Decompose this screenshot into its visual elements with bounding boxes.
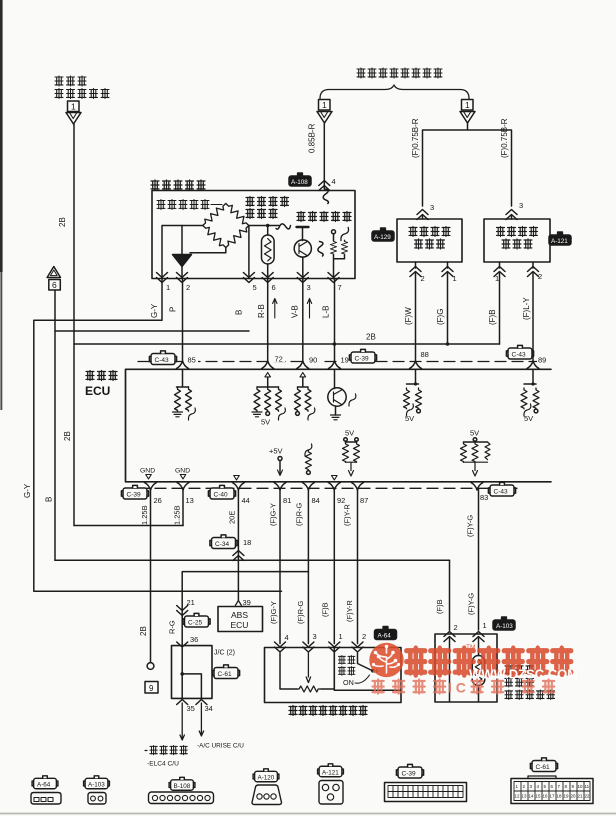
ECU pin 88 — [419, 349, 432, 358]
TPS box — [265, 648, 402, 703]
connector C-43 right-top — [506, 345, 533, 359]
ECU internal: pin89 pair 5V — [524, 369, 536, 384]
svg-text:2B: 2B — [139, 626, 148, 636]
bottom connector A-103 face — [88, 793, 106, 805]
chevron 18 — [233, 551, 244, 561]
svg-text:1: 1 — [339, 632, 343, 641]
svg-text:5V: 5V — [261, 418, 270, 427]
connector C-43 left — [149, 351, 176, 365]
bottom connector B-108 face — [149, 792, 214, 804]
svg-text:5: 5 — [544, 784, 547, 789]
label airflow sensor (box title) — [151, 180, 205, 190]
amp output to pin 2 — [181, 267, 183, 279]
svg-text:(F)R-G: (F)R-G — [296, 601, 305, 624]
svg-text:L-B: L-B — [322, 306, 331, 318]
bridge right wire to pin 5 — [248, 226, 250, 279]
bottom connector C-61 label — [530, 758, 557, 772]
svg-text:8: 8 — [565, 784, 568, 789]
relay terminal box 1 (mid-left) — [319, 100, 331, 111]
ECU connector dashed line top — [138, 361, 549, 363]
svg-text:(F)B: (F)B — [435, 599, 444, 614]
svg-text:I C: I C — [448, 680, 466, 696]
brace — [320, 85, 469, 99]
svg-text:A-103: A-103 — [496, 623, 513, 630]
svg-text:2: 2 — [186, 283, 190, 292]
label 节气门位置传感器 — [289, 706, 367, 716]
svg-text:2B: 2B — [58, 217, 67, 227]
svg-text:B: B — [235, 310, 244, 315]
ECU internal: pin19 transistor — [334, 369, 336, 388]
label 发动机 ECU — [86, 371, 117, 381]
wire (F)Y-G pin83 to coolant pin1 — [478, 490, 480, 631]
svg-text:4: 4 — [285, 633, 289, 642]
ECU internal: pin72 ladder 5V — [265, 373, 271, 377]
hot-wire transistor circle — [294, 240, 311, 257]
connector C-39 top — [349, 349, 376, 363]
svg-text:2B: 2B — [366, 333, 376, 342]
svg-text:(F)Y-R: (F)Y-R — [343, 504, 352, 526]
coolant sensor internals — [450, 638, 479, 702]
svg-text:1: 1 — [495, 274, 499, 283]
svg-text:3: 3 — [307, 283, 311, 292]
right pair resistor 1 with terminal — [332, 230, 336, 234]
svg-text:22: 22 — [585, 794, 591, 799]
svg-text:15: 15 — [536, 794, 542, 799]
junction dots on 2B bus — [333, 342, 337, 346]
svg-text:GND: GND — [175, 468, 190, 475]
ECU pin 90 — [307, 354, 320, 363]
crank position sensor box — [397, 219, 462, 262]
relay terminal box 1 (mid-right) — [462, 100, 474, 111]
svg-text:5: 5 — [253, 283, 257, 292]
svg-text:6: 6 — [272, 283, 276, 292]
svg-text:(F)B: (F)B — [488, 309, 497, 325]
svg-text:ECU: ECU — [231, 620, 249, 630]
ECU pin 85 — [185, 354, 198, 363]
svg-text:13: 13 — [186, 496, 194, 505]
ECU internal: pin85 pull resistors — [177, 369, 189, 387]
svg-text:GND: GND — [140, 468, 155, 475]
label engine control relay (top-left) — [55, 76, 109, 99]
svg-text:5V: 5V — [345, 429, 354, 438]
bottom connector A-121 face — [319, 781, 343, 805]
svg-text:5V: 5V — [405, 414, 414, 423]
svg-text:92: 92 — [337, 496, 345, 505]
svg-text:1.25B: 1.25B — [140, 505, 149, 525]
svg-text:2: 2 — [523, 784, 526, 789]
svg-text:84: 84 — [312, 496, 320, 505]
ECU pin 44 — [232, 483, 244, 491]
idle switch lever — [358, 653, 372, 670]
TPS pin 2 — [352, 642, 363, 652]
svg-text:C-39: C-39 — [355, 355, 369, 362]
svg-text:A-120: A-120 — [258, 774, 275, 781]
idle switch box — [334, 648, 401, 691]
svg-text:1.25B: 1.25B — [173, 505, 182, 525]
wire L-B: airflow pin7 to ECU 19 — [334, 279, 336, 362]
svg-text:(F)0.75B-R: (F)0.75B-R — [411, 118, 420, 158]
ECU pin 84 — [302, 483, 314, 491]
terminal box 6 — [49, 280, 61, 291]
svg-text:10: 10 — [578, 784, 584, 789]
svg-text:(F)Y-G: (F)Y-G — [466, 515, 475, 537]
ECU pin 19 — [339, 354, 351, 363]
label crank angle sensor — [497, 227, 538, 250]
ECU internal: pin88 pair 5V — [407, 369, 419, 384]
svg-text:G-Y: G-Y — [23, 483, 32, 498]
svg-text:A-103: A-103 — [88, 781, 105, 788]
svg-text:5V: 5V — [524, 414, 533, 423]
J/C junction box — [172, 646, 213, 699]
svg-text:R-B: R-B — [257, 304, 266, 318]
label intake air temp sensor — [246, 197, 289, 219]
wire 35 to ELC4 — [180, 703, 184, 740]
wire 20E pin44 to ABS ECU — [237, 490, 239, 602]
right pair resistor 2 with hook — [341, 227, 349, 240]
bottom connector C-61 face — [528, 776, 556, 779]
connector A-121 — [549, 232, 571, 245]
svg-text:(F)G-Y: (F)G-Y — [269, 503, 278, 526]
bottom connector C-39 face — [385, 783, 467, 802]
J/C pin 35 — [177, 700, 188, 705]
wire B bus to coolant pin2 — [449, 560, 451, 630]
thermistor (intake air temp) — [262, 235, 275, 264]
ECU pin 81 — [274, 483, 286, 491]
wire 2B horizontal bus to pin19 and crank ground — [74, 343, 500, 345]
TPS pin 4 — [275, 642, 286, 652]
scan edge bottom — [0, 813, 616, 815]
svg-text:V-B: V-B — [291, 305, 300, 318]
ABS ECU box — [218, 607, 263, 632]
svg-text:P: P — [169, 307, 178, 312]
svg-text:B: B — [45, 497, 54, 502]
svg-text:89: 89 — [538, 356, 546, 365]
ECU pin 13 — [177, 483, 189, 491]
svg-text:39: 39 — [243, 598, 251, 607]
svg-text:(F)R-G: (F)R-G — [295, 503, 304, 526]
svg-text:88: 88 — [421, 350, 429, 359]
svg-text:81: 81 — [283, 496, 291, 505]
bottom connector A-64 label — [32, 776, 58, 789]
wire B branch to airflow pin5 — [55, 330, 249, 332]
svg-text:ABS: ABS — [231, 610, 248, 620]
TPS potentiometer — [280, 653, 297, 689]
svg-text:C-61: C-61 — [218, 671, 232, 678]
svg-text:0.85B-R: 0.85B-R — [308, 123, 317, 153]
bridge left wire to pin 1 — [162, 226, 203, 279]
wire 0.85B-R — [323, 123, 325, 189]
relay connector triangle (mid-left) — [317, 112, 332, 124]
thermistor wire top — [267, 226, 269, 236]
svg-text:3: 3 — [313, 632, 317, 641]
wire R-G branch to J/C — [182, 572, 308, 646]
svg-text:5V: 5V — [470, 429, 479, 438]
svg-text:44: 44 — [242, 496, 250, 505]
ECU internal: pin90 pair — [300, 373, 306, 377]
connector A-64 — [375, 627, 397, 640]
svg-text:C-40: C-40 — [214, 491, 228, 498]
J/C internal bus — [182, 646, 201, 699]
svg-text:A-64: A-64 — [37, 781, 51, 788]
svg-text:9: 9 — [149, 684, 154, 693]
TPS pin 3 — [303, 642, 314, 652]
ECU connector dashed line bottom — [138, 487, 517, 489]
relay connector triangle (left) — [66, 113, 81, 125]
ECU internal: pin84 resistor — [305, 444, 312, 456]
svg-text:WWW.DZSC.COM: WWW.DZSC.COM — [469, 667, 578, 682]
ECU pin 72 — [272, 353, 285, 362]
svg-text:34: 34 — [205, 704, 213, 713]
label 怠速开关 — [338, 656, 355, 676]
coolant thermistor — [472, 656, 485, 686]
airflow box pin chevrons — [157, 273, 168, 283]
svg-text:18: 18 — [557, 794, 563, 799]
svg-text:1: 1 — [322, 100, 327, 110]
svg-text:(F)B: (F)B — [321, 602, 330, 617]
svg-text:J/C (2): J/C (2) — [214, 650, 235, 657]
svg-text:19: 19 — [341, 356, 349, 365]
chevron pin 3 crank A — [417, 210, 428, 220]
svg-text:C-61: C-61 — [536, 764, 550, 771]
wire 1.25B pin26 to terminal 9 — [150, 490, 152, 663]
svg-text:(F)Y-R: (F)Y-R — [345, 600, 354, 622]
bottom connector A-64 face — [31, 793, 61, 805]
wire (F)L-Y crank B to ECU 89 — [532, 262, 534, 362]
wire break squiggle into airflow box — [323, 189, 328, 204]
svg-text:19: 19 — [564, 794, 570, 799]
svg-text:3: 3 — [430, 203, 434, 212]
wire V-B: airflow pin3 to ECU 90 — [302, 279, 304, 362]
svg-text:11: 11 — [585, 784, 590, 789]
label engine control relay (top-middle) — [357, 68, 442, 78]
svg-text:A-121: A-121 — [551, 238, 568, 245]
svg-text:6: 6 — [52, 280, 57, 290]
svg-text:(F)L-Y: (F)L-Y — [522, 297, 531, 320]
wire (F)B crank B to 2B bus — [499, 262, 501, 344]
wire (F)G-Y pin81 to TPS pin4 — [279, 490, 281, 644]
bottom connector C-39 label — [396, 764, 423, 778]
svg-text:3: 3 — [519, 201, 523, 210]
svg-text:12: 12 — [515, 794, 521, 799]
svg-text:14: 14 — [529, 794, 535, 799]
wire B from box 6 down — [54, 290, 56, 560]
terminal circle — [147, 663, 154, 670]
svg-text:(F)Y-G: (F)Y-G — [467, 593, 476, 615]
watermark logo circle — [369, 643, 403, 677]
bridge bottom to amp — [190, 248, 226, 253]
svg-text:7: 7 — [558, 784, 561, 789]
ECU pin 89 — [537, 354, 550, 363]
svg-text:C-25: C-25 — [188, 619, 202, 626]
svg-text:A-64: A-64 — [378, 632, 392, 639]
svg-text:TM: TM — [466, 644, 475, 651]
bottom connector B-108 label — [169, 777, 195, 790]
ECU box — [126, 369, 552, 482]
direction arrow R-B — [273, 299, 277, 319]
svg-text:83: 83 — [480, 493, 488, 502]
svg-text:16: 16 — [543, 794, 549, 799]
coolant pin 1 — [473, 632, 484, 642]
ECU pin 26 — [145, 483, 157, 491]
crank B pin 1 chevron — [494, 267, 505, 277]
connector C-39 bottom-left — [121, 485, 148, 499]
TPS pin 1 — [329, 642, 340, 652]
svg-text:(F)G-Y: (F)G-Y — [269, 601, 278, 624]
svg-text:1: 1 — [453, 274, 457, 283]
page ref box 9 — [145, 682, 158, 694]
svg-text:C-39: C-39 — [402, 770, 416, 777]
svg-text:4: 4 — [537, 784, 540, 789]
wire 2B link — [74, 525, 183, 527]
svg-text:72: 72 — [275, 355, 283, 364]
svg-text:B-108: B-108 — [174, 783, 191, 790]
svg-text:C-39: C-39 — [127, 491, 141, 498]
relay connector triangle (mid-right) — [460, 112, 475, 124]
svg-text:2: 2 — [454, 623, 458, 632]
label airflow sensor (right section) — [297, 212, 351, 222]
bottom connector A-120 label — [253, 769, 279, 782]
svg-text:1: 1 — [71, 102, 76, 112]
svg-text:2: 2 — [421, 274, 425, 283]
svg-text:A-129: A-129 — [374, 234, 391, 241]
wire R-B: airflow pin6 to ECU 72 — [267, 279, 269, 362]
wire B bus horizontal — [55, 559, 450, 561]
transistor wire to pin 3 — [302, 257, 304, 278]
chevron 36 — [177, 642, 188, 647]
svg-text:17: 17 — [550, 794, 556, 799]
coolant pin 2 — [444, 632, 455, 642]
chevron 21 — [177, 606, 188, 616]
svg-text:21: 21 — [187, 598, 195, 607]
svg-text:1: 1 — [516, 784, 519, 789]
svg-text:1: 1 — [483, 621, 487, 630]
svg-text:13: 13 — [522, 794, 528, 799]
warning triangle A — [47, 267, 60, 278]
svg-text:2: 2 — [538, 272, 542, 281]
svg-text:35: 35 — [187, 704, 195, 713]
ECU pin 87 — [352, 483, 364, 491]
label airflow sensor (inner) — [157, 200, 209, 210]
svg-text:ECU: ECU — [85, 384, 110, 398]
TPS wiper arrow pin3 — [306, 653, 310, 683]
arrow into ABS ECU pin 39 — [235, 601, 241, 606]
chevron pin 3 crank B — [506, 210, 517, 220]
svg-text:7: 7 — [338, 283, 342, 292]
svg-text:A-121: A-121 — [322, 769, 339, 776]
crank angle sensor box — [484, 219, 550, 262]
crank A pin 2 chevron — [410, 267, 421, 277]
bridge supply rail to break — [249, 225, 279, 227]
chevron pin 4 — [319, 181, 330, 191]
bottom connector A-120 face — [252, 785, 282, 805]
svg-text:C-34: C-34 — [215, 541, 229, 548]
break squiggle right of transistor — [318, 242, 323, 257]
scan edge left — [0, 0, 3, 272]
label 自动变速 — [145, 750, 147, 752]
svg-text:A-108: A-108 — [291, 179, 308, 186]
connector C-25 — [183, 613, 210, 627]
J/C pin 34 — [196, 700, 207, 705]
svg-text:90: 90 — [309, 356, 317, 365]
bottom connector A-121 label — [318, 764, 344, 777]
svg-text:-A/C URISE C/U: -A/C URISE C/U — [197, 743, 244, 750]
connector A-103 — [493, 617, 515, 630]
relay terminal box 1 (left) — [68, 101, 80, 112]
svg-text:(F)W: (F)W — [404, 307, 413, 325]
wire G-Y long — [34, 279, 282, 592]
svg-text:20E: 20E — [228, 511, 237, 524]
svg-text:R-G: R-G — [168, 620, 177, 634]
hot wire element T-bar — [297, 226, 309, 228]
wire (F)G crank A to 2B bus — [447, 262, 449, 344]
label crank position sensor — [409, 227, 450, 250]
wire 34 to A/C — [199, 703, 203, 736]
bridge resistor network — [200, 201, 251, 250]
svg-text:3: 3 — [530, 784, 533, 789]
ECU pin 83 — [471, 483, 483, 491]
wire 1.25B pin13 to 2B — [182, 490, 184, 526]
svg-text:ON: ON — [343, 678, 354, 687]
watermark 全球最大IC采购网站 — [372, 680, 554, 694]
connector C-40 — [208, 485, 235, 499]
svg-text:-ELC4 C/U: -ELC4 C/U — [147, 761, 179, 768]
svg-text:9: 9 — [572, 784, 575, 789]
thermistor wire bottom to pin 6 — [267, 264, 269, 279]
connector C-43 bottom-right — [488, 482, 515, 496]
bottom connector A-103 label — [84, 776, 110, 789]
wire (F)B pin92 to TPS pin1 — [333, 490, 335, 644]
amplifier input wire — [181, 226, 183, 255]
coolant temp sensor box — [435, 634, 497, 702]
svg-text:20: 20 — [571, 794, 577, 799]
connector A-129 — [372, 228, 394, 241]
svg-text:2: 2 — [362, 632, 366, 641]
svg-text:1: 1 — [166, 283, 170, 292]
break squiggle right of bridge rail — [276, 224, 291, 229]
junction thermistor — [266, 224, 270, 228]
label 发动机/冷却液/温度传感器 — [505, 665, 555, 700]
direction arrow V-B — [307, 299, 311, 319]
svg-text:C-43: C-43 — [155, 357, 169, 364]
svg-text:36: 36 — [190, 635, 198, 644]
svg-text:26: 26 — [154, 496, 162, 505]
svg-text:1: 1 — [465, 100, 470, 110]
svg-text:+5V: +5V — [269, 447, 283, 456]
wire relay to crank sensors — [423, 123, 512, 206]
crank B pin 2 chevron — [528, 267, 539, 277]
wire (F)Y-R pin87 to TPS pin2 — [357, 490, 359, 644]
svg-text:(F)G: (F)G — [436, 309, 445, 325]
svg-text:2B: 2B — [63, 431, 72, 441]
wire (F)R-G pin84 to TPS pin3 — [307, 490, 309, 644]
wire P: airflow pin2 to ECU 85 — [182, 279, 184, 362]
connector C-61 — [212, 665, 239, 679]
svg-text:21: 21 — [578, 794, 584, 799]
wire 2B vertical from relay — [73, 124, 75, 526]
svg-text:(F)0.75B-R: (F)0.75B-R — [500, 118, 509, 158]
svg-text:87: 87 — [360, 496, 368, 505]
svg-text:6: 6 — [551, 784, 554, 789]
svg-text:85: 85 — [188, 356, 196, 365]
svg-text:18: 18 — [243, 538, 251, 547]
op-amp triangle — [173, 255, 192, 267]
airflow sensor box — [152, 191, 355, 279]
pair bottom join to pin 7 — [334, 255, 345, 279]
svg-text:G-Y: G-Y — [150, 303, 159, 318]
connector A-108 — [289, 173, 311, 186]
ECU pin 92 — [328, 483, 340, 491]
wire (F)W crank A to ECU 88 — [415, 262, 417, 362]
